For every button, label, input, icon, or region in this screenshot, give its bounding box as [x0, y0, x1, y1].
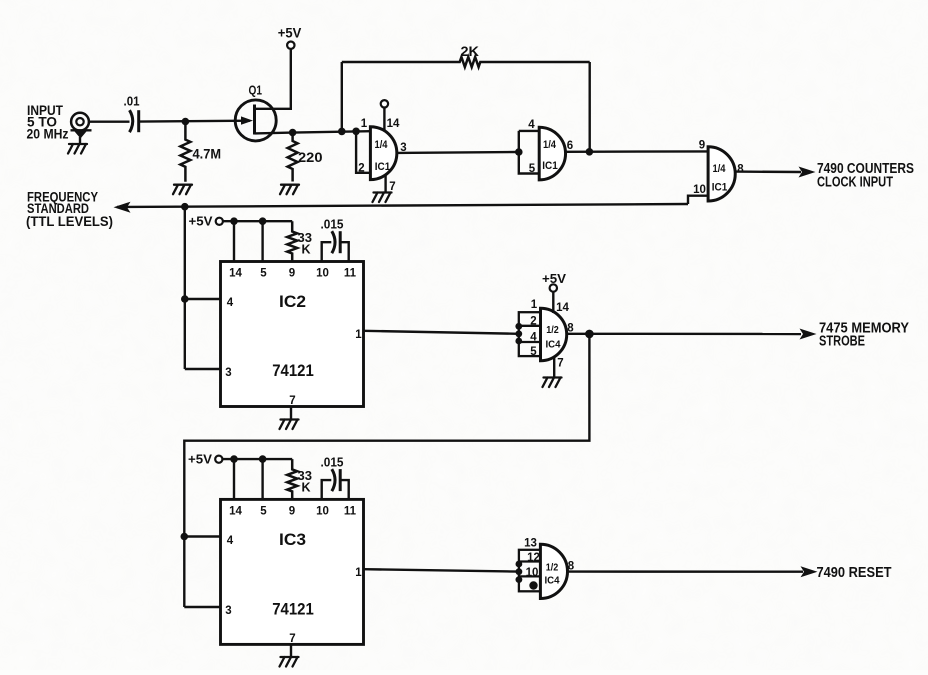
svg-text:10: 10	[316, 268, 329, 280]
svg-text:10: 10	[526, 567, 539, 579]
svg-text:IC2: IC2	[279, 292, 306, 311]
svg-text:IC1: IC1	[375, 161, 391, 173]
svg-text:4: 4	[528, 119, 535, 131]
svg-text:+5V: +5V	[189, 215, 214, 229]
svg-text:.015: .015	[321, 218, 344, 232]
svg-text:2: 2	[530, 316, 536, 328]
resistor 2K feedback	[342, 57, 590, 67]
svg-text:11: 11	[344, 268, 357, 280]
wire Q1 source	[255, 131, 371, 133]
op-amp gate U1b (1/4 IC1)	[539, 127, 565, 180]
IC1a pin 14 terminal	[381, 100, 388, 107]
+5V terminal (Q1)	[287, 42, 294, 49]
svg-text:+5V: +5V	[542, 271, 566, 286]
IC4a input ladder	[519, 312, 541, 356]
wire to IC2 pin 14	[233, 221, 235, 261]
svg-text:20 MHz: 20 MHz	[27, 127, 69, 142]
svg-text:IC4: IC4	[546, 339, 561, 351]
svg-text:4: 4	[530, 332, 537, 344]
svg-text:9: 9	[289, 506, 295, 518]
arrow to 7490 reset	[801, 566, 818, 577]
arrow frequency standard	[114, 202, 131, 213]
ground (IC4a pin 7)	[543, 378, 562, 388]
svg-text:7: 7	[289, 633, 295, 645]
resistor 220	[288, 133, 298, 182]
svg-text:3: 3	[225, 605, 231, 617]
wire feedback riser left	[341, 62, 343, 131]
svg-text:1: 1	[361, 118, 368, 130]
IC4b ladder junction dots	[516, 561, 523, 568]
svg-text:74121: 74121	[272, 600, 314, 619]
capacitor .015 (IC2) wires	[322, 242, 332, 261]
capacitor .015 (IC3) wires	[322, 480, 332, 499]
svg-text:1/4: 1/4	[543, 139, 557, 151]
svg-text:7: 7	[389, 181, 395, 193]
svg-text:5: 5	[260, 268, 267, 280]
IC4a pin 14 wire	[552, 292, 554, 314]
op-amp gate U1a (1/4 IC1)	[370, 127, 396, 180]
resistor 4.7M	[180, 122, 190, 182]
node junction IC2 pin4	[181, 295, 189, 303]
svg-text:+5V: +5V	[278, 25, 302, 41]
capacitor .01	[130, 110, 133, 132]
node junction C1/4.7M	[182, 118, 190, 126]
svg-text:2K: 2K	[461, 44, 480, 59]
wire feedback drop right	[589, 62, 591, 152]
wire freq std step to IC1c pin10	[688, 196, 708, 204]
node junction strobe/IC3 feed	[585, 330, 594, 339]
svg-text:Q1: Q1	[249, 84, 263, 98]
wire to IC2 pin 4	[185, 298, 221, 300]
svg-text:14: 14	[229, 268, 242, 280]
wire IC1b input bracket	[519, 130, 539, 132]
IC3 pin 7 wire	[290, 644, 292, 656]
IC2 pin 7 wire	[290, 407, 292, 420]
wire freq junction down to IC2	[184, 207, 186, 369]
svg-text:1: 1	[531, 299, 538, 311]
svg-text:7490 RESET: 7490 RESET	[817, 565, 892, 581]
svg-text:5: 5	[529, 163, 536, 175]
node junction feedback/output	[586, 148, 594, 156]
wire to IC3 pin 4	[184, 535, 220, 537]
svg-text:1: 1	[355, 329, 362, 341]
svg-text:7: 7	[557, 358, 563, 370]
wire IC1a output to IC1b	[397, 151, 519, 154]
ground (IC1a pin 7)	[373, 193, 392, 203]
svg-text:CLOCK INPUT: CLOCK INPUT	[817, 175, 893, 191]
node junction pin1/pin2 tie	[352, 128, 360, 136]
svg-text:220: 220	[298, 150, 323, 165]
svg-text:1: 1	[355, 567, 362, 579]
svg-text:K: K	[302, 243, 311, 257]
ground (IC2 pin 7)	[280, 420, 299, 430]
wire to IC3 pin 3	[184, 606, 220, 608]
IC1a pin 7 wire	[384, 175, 386, 193]
wire to IC2 pin 3	[185, 368, 221, 370]
svg-text:1/4: 1/4	[713, 163, 727, 175]
svg-text:9: 9	[531, 582, 537, 593]
wire IC4a output to 7475	[567, 333, 801, 336]
node junction +5V/pin14 (IC2)	[230, 217, 238, 225]
op-amp gate U4a (1/2 IC4)	[541, 308, 567, 360]
op-amp gate U4b (1/2 IC4)	[540, 544, 567, 598]
wire IC2 pin1 to IC4a	[364, 331, 519, 334]
svg-text:14: 14	[556, 302, 569, 314]
IC4b pin 9 mark	[529, 581, 537, 589]
+5V terminal (IC4a)	[550, 284, 557, 291]
svg-text:STROBE: STROBE	[819, 334, 865, 350]
node junction +5V/pin5 (IC2)	[259, 217, 267, 225]
wire IC1a pin2 tie	[356, 131, 370, 173]
wire frequency standard bus	[117, 204, 688, 207]
svg-text:8: 8	[737, 164, 744, 176]
node junction +5V/pin5 (IC3)	[259, 455, 267, 463]
IC4a ladder junction dots	[515, 323, 522, 330]
svg-text:IC1: IC1	[542, 160, 558, 172]
ground (220)	[280, 185, 299, 195]
svg-text:9: 9	[289, 268, 295, 280]
node junction freq/IC2	[181, 203, 189, 211]
svg-text:14: 14	[229, 506, 242, 518]
svg-text:1/2: 1/2	[546, 324, 559, 336]
arrow to 7490 counters clock	[799, 167, 816, 178]
svg-text:1/2: 1/2	[546, 562, 559, 574]
wire IC4b output to 7490 reset	[567, 570, 803, 573]
ground (IC3 pin 7)	[280, 657, 299, 667]
IC4b input ladder	[519, 550, 541, 592]
svg-text:IC3: IC3	[279, 530, 306, 549]
IC4a pin 7 wire	[553, 356, 555, 377]
wire IC1b output to IC1c pin9	[566, 150, 709, 153]
node junction source/220	[289, 129, 297, 137]
wire Q1 drain to +5V	[255, 49, 291, 109]
capacitor .015 (IC2)	[332, 231, 335, 253]
svg-text:6: 6	[567, 140, 573, 152]
input connector J1	[71, 113, 89, 131]
svg-text:3: 3	[225, 367, 231, 379]
resistor 33K (IC3)	[287, 459, 297, 499]
svg-text:4: 4	[227, 535, 234, 547]
capacitor .015 (IC3)	[332, 469, 335, 491]
op-amp gate U1c (1/4 IC1)	[708, 147, 735, 201]
svg-text:74121: 74121	[272, 361, 314, 380]
wire strobe junction down to IC3	[184, 334, 589, 607]
node junction IC1b inputs	[515, 148, 523, 156]
wire IC1c output	[735, 170, 801, 173]
svg-text:14: 14	[387, 118, 400, 130]
wire connector to C1	[89, 120, 130, 122]
transistor Q1 FET	[235, 100, 276, 141]
svg-text:.01: .01	[124, 94, 140, 109]
svg-text:9: 9	[699, 140, 705, 152]
svg-text:12: 12	[527, 552, 540, 564]
ground (4.7M)	[173, 185, 192, 195]
svg-text:10: 10	[693, 184, 706, 196]
wire +5V bus (IC3)	[222, 458, 292, 460]
svg-text:13: 13	[524, 538, 537, 550]
wire +5V bus (IC2)	[223, 220, 292, 222]
svg-text:5: 5	[260, 506, 267, 518]
svg-text:+5V: +5V	[188, 453, 213, 467]
svg-text:4.7M: 4.7M	[193, 147, 222, 162]
svg-text:K: K	[302, 481, 311, 495]
node junction feedback/IC1 input	[338, 128, 346, 136]
IC U3 74121 box	[221, 499, 364, 644]
svg-text:IC4: IC4	[545, 575, 560, 587]
arrow to 7475 memory strobe	[800, 329, 817, 340]
node junction +5V/pin14 (IC3)	[230, 455, 238, 463]
node junction IC3 pin4	[181, 533, 189, 541]
IC1a pin 14 wire	[383, 107, 385, 131]
svg-text:2: 2	[358, 163, 364, 175]
svg-text:10: 10	[316, 506, 329, 518]
wire IC3 pin1 to IC4b	[364, 569, 519, 571]
svg-text:4: 4	[227, 297, 234, 309]
svg-text:11: 11	[344, 506, 357, 518]
wire to IC3 pin 14	[233, 459, 235, 499]
IC U2 74121 box	[221, 262, 364, 407]
svg-text:IC1: IC1	[712, 182, 728, 194]
svg-text:7: 7	[289, 395, 295, 407]
wire C1 to Q1 gate	[139, 119, 250, 122]
wire to IC2 pin 5	[261, 221, 263, 261]
svg-text:5: 5	[530, 346, 537, 358]
wire to IC3 pin 5	[261, 459, 263, 499]
svg-text:.015: .015	[321, 456, 344, 470]
ground (input connector)	[68, 144, 87, 154]
svg-text:1/4: 1/4	[375, 139, 389, 151]
svg-text:(TTL LEVELS): (TTL LEVELS)	[26, 214, 113, 229]
resistor 33K (IC2)	[287, 221, 297, 261]
